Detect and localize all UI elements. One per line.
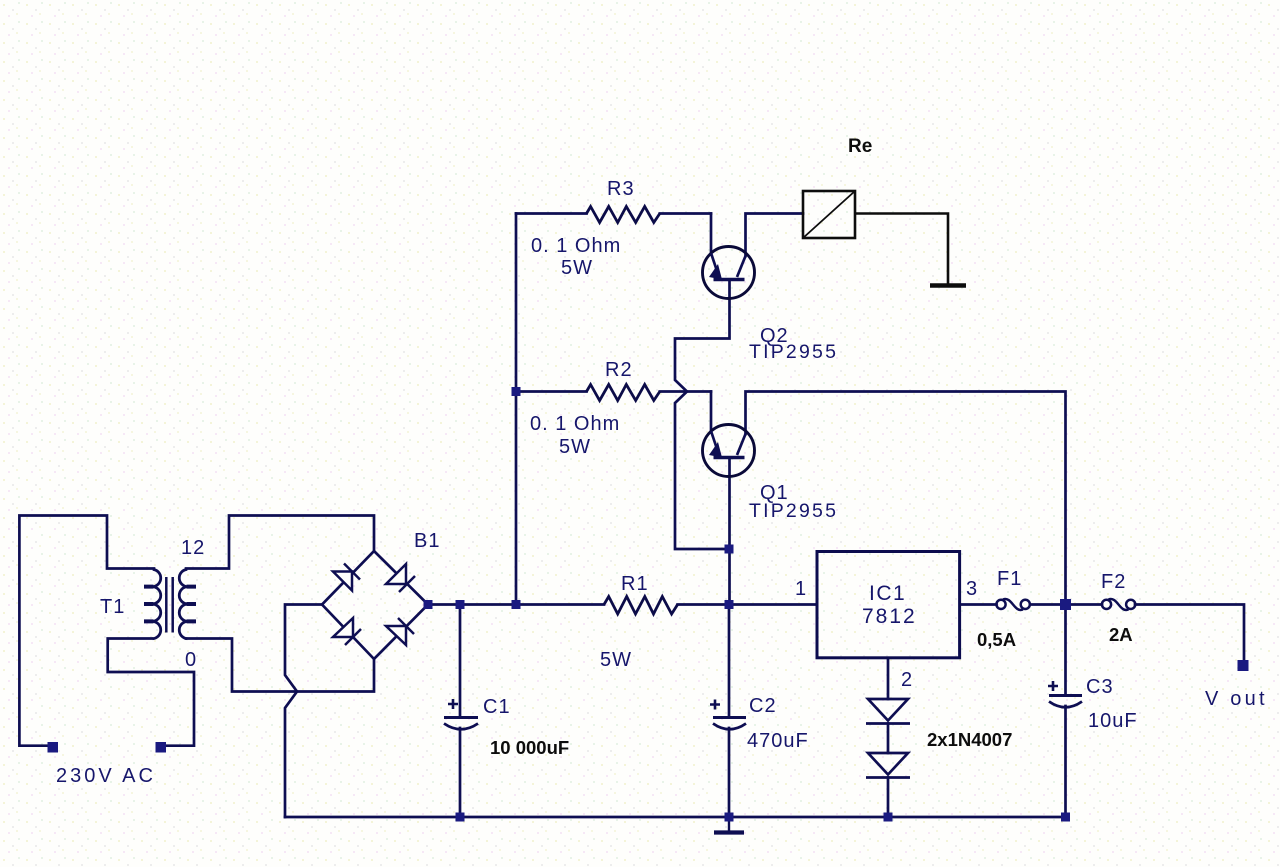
svg-text:0. 1 Ohm: 0. 1 Ohm (530, 413, 620, 435)
wire IC1 pin3 to F1 (960, 603, 997, 606)
svg-text:TIP2955: TIP2955 (749, 500, 838, 522)
svg-text:7812: 7812 (862, 605, 917, 628)
diode D1 (1N4007) (866, 699, 910, 724)
svg-text:IC1: IC1 (869, 582, 906, 605)
svg-text:2x1N4007: 2x1N4007 (927, 729, 1012, 750)
wire secondary bottom to bridge (186, 639, 374, 692)
svg-text:230V AC: 230V AC (56, 765, 156, 787)
terminal square 230V left (48, 742, 59, 753)
svg-text:R1: R1 (621, 573, 649, 595)
wire Q1 base to rail (728, 458, 731, 605)
svg-text:5W: 5W (561, 257, 593, 279)
node C2 bottom rail (725, 813, 734, 822)
relay Re box (803, 191, 948, 284)
wire C1 stem (459, 605, 462, 818)
svg-text:TIP2955: TIP2955 (749, 341, 838, 363)
wire R2 leads (516, 390, 711, 393)
svg-text:Re: Re (848, 136, 872, 157)
wire main rail right of R1 (678, 603, 817, 606)
node C1 bottom rail (456, 813, 465, 822)
node bridge output (424, 600, 433, 609)
wire primary bottom loop (108, 639, 194, 746)
wire bridge left vertex drop with hop (285, 605, 322, 818)
wire secondary top to bridge (186, 516, 374, 569)
svg-text:470uF: 470uF (747, 730, 809, 752)
wire C3 stem (1064, 605, 1067, 818)
svg-text:3: 3 (966, 578, 977, 600)
svg-text:C1: C1 (483, 696, 511, 718)
capacitor C2 (710, 700, 746, 730)
node C1 top (456, 600, 465, 609)
svg-text:0. 1 Ohm: 0. 1 Ohm (531, 235, 621, 257)
node C3 bottom rail (1061, 813, 1070, 822)
svg-text:F1: F1 (997, 568, 1022, 590)
svg-text:T1: T1 (100, 596, 125, 618)
wire bottom rail (285, 816, 1066, 819)
diode D2 (1N4007) (866, 753, 910, 778)
capacitor C1 (444, 699, 478, 729)
fuse F1 (996, 599, 1030, 610)
wire Q2 emitter lead (710, 214, 713, 254)
svg-text:0,5A: 0,5A (977, 629, 1016, 650)
transformer T1 (153, 569, 188, 638)
wire F2 to Vout (1135, 605, 1244, 661)
terminal square 230V right (156, 742, 167, 753)
svg-text:12: 12 (181, 537, 205, 559)
T1 primary winding arcs (153, 569, 161, 638)
T1 secondary winding ticks (187, 587, 197, 622)
bridge rectifier B1 diamond (322, 551, 428, 659)
node bases junction (725, 545, 734, 554)
resistor R1 (604, 597, 678, 615)
svg-text:10 000uF: 10 000uF (490, 737, 569, 758)
svg-text:5W: 5W (559, 436, 591, 458)
svg-text:B1: B1 (414, 530, 440, 552)
T1 core lines (166, 577, 172, 633)
resistor R2 (587, 385, 660, 401)
svg-text:1: 1 (795, 578, 806, 600)
ground at relay (930, 283, 966, 288)
B1 diode top-left (333, 564, 360, 591)
wire R3 leads (516, 212, 711, 215)
node F1-F2 (1060, 599, 1071, 610)
fuse F2 (1102, 599, 1135, 610)
svg-text:F2: F2 (1101, 571, 1126, 593)
B1 diode bottom-right (386, 618, 414, 645)
svg-text:2A: 2A (1109, 624, 1133, 645)
wire IC1 pin2 and diode links (887, 658, 890, 817)
wire Q2 base route with hop over R2 (675, 280, 730, 550)
svg-text:2: 2 (901, 669, 912, 691)
wire main rail left of R1 (428, 603, 604, 606)
T1 primary winding ticks (144, 587, 154, 622)
IC1 box (817, 552, 960, 658)
wire C2 stem (728, 605, 731, 818)
svg-text:5W: 5W (600, 649, 632, 671)
ground at bottom rail (714, 817, 744, 833)
svg-text:R3: R3 (607, 178, 635, 200)
svg-text:0: 0 (185, 649, 196, 671)
svg-text:C3: C3 (1086, 676, 1114, 698)
svg-text:10uF: 10uF (1088, 710, 1138, 732)
relay right wire (855, 214, 948, 285)
svg-text:V out: V out (1205, 688, 1268, 710)
node R2 left (512, 387, 521, 396)
node diode bottom rail (884, 813, 893, 822)
node R1 right (725, 600, 734, 609)
wire Q2 collector lead to relay (746, 214, 804, 257)
node rail x516 (512, 600, 521, 609)
wire F1 to F2 through node (1030, 603, 1102, 606)
capacitor C3 (1048, 681, 1082, 707)
T1 secondary winding arcs (179, 569, 187, 638)
B1 diode top-right (386, 564, 415, 592)
svg-text:C2: C2 (749, 695, 777, 717)
svg-text:R2: R2 (605, 359, 633, 381)
transistor Q2 (703, 247, 755, 299)
terminal square V out (1238, 660, 1249, 671)
B1 diode bottom-left (333, 618, 361, 645)
transistor Q1 (703, 425, 755, 477)
wire Q1 collector rail to output node (746, 392, 1066, 605)
wire primary left loop (19, 516, 154, 746)
resistor R3 (587, 207, 660, 223)
wire vertical x516 R3/R2/rail (515, 214, 518, 605)
wire Q1 emitter lead (710, 392, 713, 432)
